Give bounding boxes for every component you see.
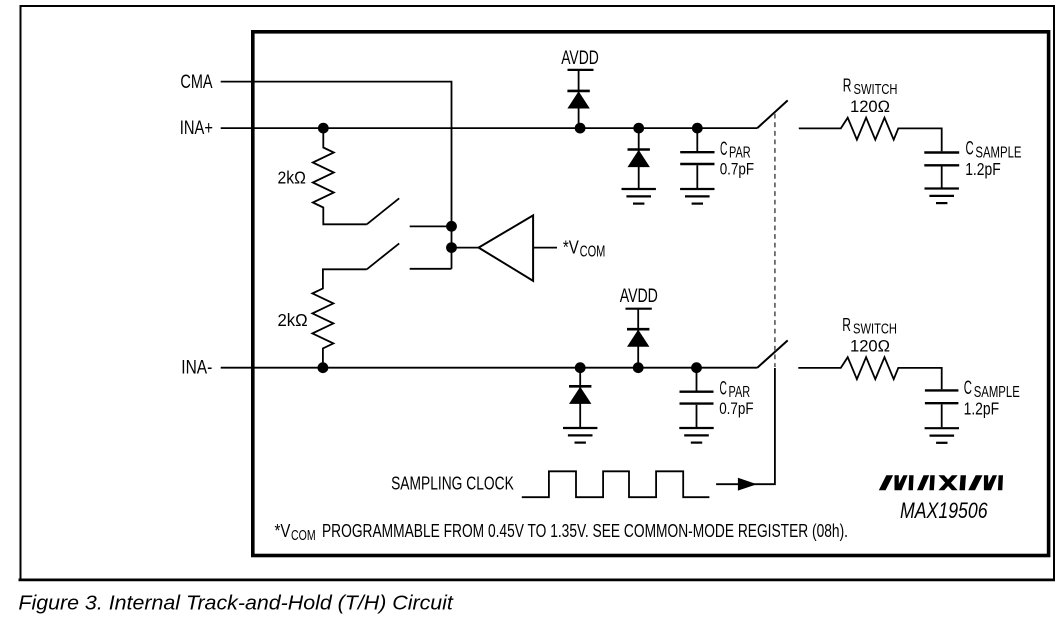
svg-text:120Ω: 120Ω [850,98,890,116]
svg-text:*V: *V [563,237,580,258]
svg-text:COM: COM [291,527,316,544]
svg-text:120Ω: 120Ω [850,338,890,356]
svg-text:COM: COM [580,244,606,261]
svg-text:C: C [966,139,974,160]
svg-text:Figure 3. Internal Track-and-H: Figure 3. Internal Track-and-Hold (T/H) … [18,592,454,615]
svg-text:2kΩ: 2kΩ [278,310,308,330]
svg-text:*V: *V [275,520,291,541]
svg-text:R: R [843,75,852,96]
svg-text:C: C [720,139,727,160]
svg-text:INA-: INA- [181,358,212,379]
svg-text:SWITCH: SWITCH [854,81,898,98]
svg-text:SAMPLING CLOCK: SAMPLING CLOCK [391,474,514,494]
svg-text:1.2pF: 1.2pF [964,399,1000,419]
svg-text:SWITCH: SWITCH [853,321,897,338]
svg-text:MAX19506: MAX19506 [900,498,988,523]
svg-text:INA+: INA+ [180,118,213,139]
svg-text:C: C [720,379,727,400]
svg-text:2kΩ: 2kΩ [278,168,306,188]
svg-text:C: C [964,378,972,399]
svg-text:AVDD: AVDD [561,48,599,69]
svg-text:PROGRAMMABLE FROM 0.45V TO 1.3: PROGRAMMABLE FROM 0.45V TO 1.35V. SEE CO… [322,520,848,541]
svg-text:CMA: CMA [180,72,212,93]
svg-text:0.7pF: 0.7pF [719,399,753,418]
svg-text:R: R [842,314,851,335]
svg-text:1.2pF: 1.2pF [965,159,1001,179]
svg-text:0.7pF: 0.7pF [720,159,754,178]
svg-text:AVDD: AVDD [620,286,658,307]
